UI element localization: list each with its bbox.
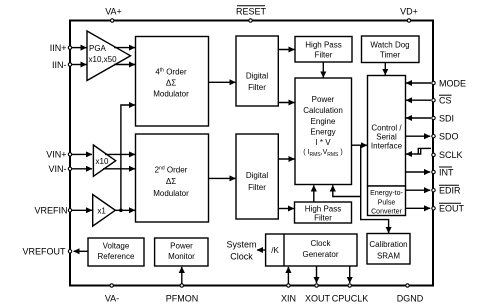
svg-text:VIN+: VIN+ (46, 150, 66, 160)
wire IIN+ to PGA (72, 47, 87, 49)
svg-text:PGA: PGA (89, 44, 107, 53)
wire x10 out+ to 2nd order modulator (105, 153, 135, 155)
svg-text:Timer: Timer (380, 51, 400, 60)
block digital filter (top) (236, 36, 278, 106)
svg-text:INT: INT (439, 167, 454, 177)
pin SDI (432, 116, 435, 119)
svg-text:High Pass: High Pass (305, 205, 341, 214)
pin VREFOUT (68, 250, 71, 253)
pin CPUCLK (348, 284, 351, 287)
svg-text:Interface: Interface (371, 142, 403, 151)
svg-text:CPUCLK: CPUCLK (332, 293, 369, 303)
block clock generator with /K divider (266, 234, 357, 266)
node junction on x1 output (119, 209, 123, 213)
svg-text:VA-: VA- (105, 293, 119, 303)
svg-text:VA+: VA+ (105, 7, 122, 17)
svg-text:XOUT: XOUT (305, 293, 331, 303)
pin IIN- (68, 63, 71, 66)
wire VREFOUT out of voltage reference (74, 250, 89, 252)
wire VREFIN to x1 (72, 209, 93, 211)
wire watch dog timer down to control serial interface (384, 63, 386, 76)
pin XOUT (315, 284, 318, 287)
svg-text:Reference: Reference (98, 252, 135, 261)
svg-text:System: System (226, 240, 256, 250)
pin VA+ (111, 19, 114, 22)
svg-text:Voltage: Voltage (103, 241, 130, 250)
wire 2nd order modulator to digital filter bottom (209, 177, 236, 179)
svg-text:Modulator: Modulator (153, 90, 189, 99)
pin SCLK (432, 153, 435, 156)
block high pass filter (top) (295, 37, 352, 63)
wire VIN- to x10 (72, 168, 93, 170)
wire VIN+ to x10 (72, 153, 93, 155)
op-amp PGA (87, 31, 131, 81)
svg-text:Digital: Digital (246, 72, 268, 81)
wire system clock out of /K (257, 249, 266, 251)
svg-text:Engine: Engine (311, 117, 336, 126)
pin VIN+ (68, 153, 71, 156)
wire riser from x1 output junction to 4th order modulator (121, 105, 135, 210)
svg-text:Power: Power (312, 95, 335, 104)
svg-text:EDIR: EDIR (439, 186, 461, 196)
pin IIN+ (68, 46, 71, 49)
svg-text:VD+: VD+ (400, 7, 418, 17)
block digital filter (bottom) (236, 134, 278, 219)
block power calculation engine (295, 78, 352, 185)
pin VREFIN (68, 209, 71, 212)
wire branch up into power calculation engine bottom (333, 185, 361, 196)
svg-text:Pulse: Pulse (378, 200, 396, 207)
svg-text:MODE: MODE (439, 78, 466, 88)
wire high pass filter top down to power calculation engine (322, 62, 324, 77)
svg-text:Clock: Clock (230, 252, 253, 262)
svg-text:RESET: RESET (236, 7, 267, 17)
wire PGA out- to 4th order modulator (114, 64, 135, 66)
wire EOUT out of energy-to-pulse converter (406, 207, 431, 209)
svg-text:XIN: XIN (281, 293, 296, 303)
wire IIN- to PGA (72, 64, 87, 66)
wire digital filter top to high pass filter top (278, 49, 294, 51)
op-amp x10 (93, 145, 115, 176)
svg-text:Energy-to-: Energy-to- (370, 190, 403, 197)
system clock label (226, 240, 256, 262)
svg-text:Generator: Generator (302, 250, 338, 259)
pin VIN- (68, 167, 71, 170)
block energy-to-pulse converter (368, 186, 406, 216)
svg-text:Watch Dog: Watch Dog (370, 41, 409, 50)
pin INT (432, 170, 435, 173)
svg-text:Serial: Serial (376, 133, 397, 142)
svg-text:VREFIN: VREFIN (34, 205, 67, 215)
pin EOUT (432, 207, 435, 210)
wire digital filter top to power calculation engine (278, 102, 294, 104)
wire MODE into control serial interface (406, 82, 431, 84)
wire INT out of control serial interface (406, 171, 431, 173)
svg-text:/K: /K (271, 246, 279, 255)
svg-text:Calculation: Calculation (303, 106, 343, 115)
wire PGA out+ to 4th order modulator (114, 47, 135, 49)
wire high pass filter bottom up to power calculation engine (313, 185, 315, 201)
wire digital filter bottom to power calculation engine (278, 158, 294, 160)
svg-text:Filter: Filter (314, 214, 332, 223)
svg-text:Filter: Filter (248, 83, 266, 92)
svg-text:SCLK: SCLK (439, 150, 463, 160)
wire CS into control serial interface (406, 99, 431, 101)
svg-text:ΔΣ: ΔΣ (166, 79, 176, 88)
pin EDIR (432, 189, 435, 192)
svg-text:Filter: Filter (248, 183, 266, 192)
pin VA- (110, 284, 113, 287)
chip outer border (70, 21, 433, 286)
wire power calculation engine to control serial interface (352, 144, 368, 146)
block control / serial interface (368, 76, 406, 187)
wire EDIR out of energy-to-pulse converter (406, 189, 431, 191)
pin VD+ (407, 19, 410, 22)
svg-text:Power: Power (170, 241, 193, 250)
svg-text:x10: x10 (96, 157, 109, 166)
svg-text:Modulator: Modulator (153, 189, 189, 198)
block watch dog timer (362, 36, 420, 63)
wire bus down to calibration SRAM (361, 145, 389, 233)
wire 4th order modulator to digital filter top (209, 81, 236, 83)
svg-text:x10,x50: x10,x50 (89, 55, 118, 64)
svg-text:I * V: I * V (315, 138, 331, 147)
svg-text:IIN+: IIN+ (50, 43, 67, 53)
wire CPUCLK out of clock generator (349, 266, 351, 283)
pin MODE (432, 81, 435, 84)
block power monitor (155, 238, 208, 266)
wire PFMON up into power monitor (181, 267, 183, 285)
wire SCLK into control serial interface with schmitt symbol (426, 147, 432, 149)
svg-text:CS: CS (439, 96, 452, 106)
pin CS (432, 99, 435, 102)
svg-text:Monitor: Monitor (168, 252, 195, 261)
svg-text:SDI: SDI (439, 113, 454, 123)
svg-text:Filter: Filter (315, 51, 333, 60)
svg-text:Calibration: Calibration (369, 240, 407, 249)
pin PFMON (180, 284, 183, 287)
block calibration SRAM (367, 234, 410, 265)
wire digital filter bottom to high pass filter bottom (278, 208, 294, 210)
block 4th order delta-sigma modulator (136, 37, 209, 127)
wire x1 out to 2nd order modulator (115, 209, 135, 211)
op-amp x1 (93, 195, 116, 227)
pin SDO (432, 135, 435, 138)
svg-text:EOUT: EOUT (439, 204, 465, 214)
wire SDI into control serial interface (406, 117, 431, 119)
svg-text:Control /: Control / (371, 124, 402, 133)
svg-text:SDO: SDO (439, 132, 459, 142)
svg-text:Digital: Digital (246, 171, 268, 180)
block voltage reference (88, 238, 144, 266)
svg-text:VIN-: VIN- (49, 164, 67, 174)
pin RESET (249, 19, 252, 22)
svg-text:Energy: Energy (310, 128, 335, 137)
svg-text:PFMON: PFMON (166, 293, 199, 303)
wire XOUT out of clock generator (316, 266, 318, 283)
svg-text:x1: x1 (97, 207, 106, 216)
block 2nd order delta-sigma modulator (136, 134, 209, 222)
pin XIN (287, 284, 290, 287)
wire SDO out of control serial interface (406, 135, 431, 137)
wire x10 out- to 2nd order modulator (103, 168, 135, 170)
svg-text:Converter: Converter (371, 209, 402, 216)
pin DGND (406, 284, 409, 287)
svg-text:SRAM: SRAM (377, 252, 400, 261)
svg-text:High Pass: High Pass (305, 41, 341, 50)
block high pass filter (bottom) (295, 202, 352, 223)
svg-text:IIN-: IIN- (52, 60, 67, 70)
wire XIN up into clock generator (287, 267, 289, 285)
svg-text:Clock: Clock (310, 239, 331, 248)
svg-text:DGND: DGND (397, 293, 424, 303)
svg-text:VREFOUT: VREFOUT (22, 247, 66, 257)
svg-text:ΔΣ: ΔΣ (166, 177, 176, 186)
